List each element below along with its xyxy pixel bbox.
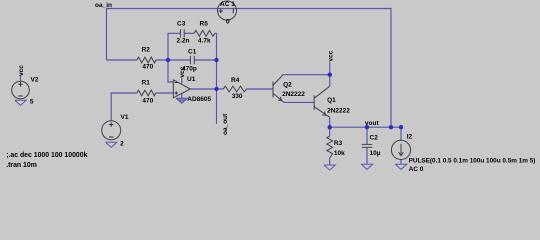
svg-text:2.2n: 2.2n [177,38,190,45]
svg-text:;.ac dec 1000 100 10000k: ;.ac dec 1000 100 10000k [6,152,87,159]
svg-text:I2: I2 [407,134,413,141]
svg-text:470: 470 [142,63,153,70]
svg-text:.tran 10m: .tran 10m [6,162,37,169]
svg-text:vcc: vcc [327,50,334,61]
svg-text:C2: C2 [370,135,379,142]
svg-text:Q1: Q1 [327,97,336,104]
svg-text:C1: C1 [188,48,197,55]
svg-text:2N2222: 2N2222 [282,91,305,98]
svg-text:R3: R3 [334,140,343,147]
svg-text:470: 470 [142,98,153,105]
svg-text:330: 330 [232,93,243,100]
svg-text:V1: V1 [121,114,129,121]
svg-text:AD8605: AD8605 [187,96,211,103]
svg-text:PULSE(0.1 0.5 0.1m 100u 100u 0: PULSE(0.1 0.5 0.1m 100u 100u 0.5m 1m 5) [409,157,536,164]
svg-text:oa_in: oa_in [95,2,112,9]
svg-text:V2: V2 [31,77,39,84]
svg-text:R4: R4 [231,77,240,84]
svg-text:10k: 10k [334,150,345,157]
svg-text:vcc: vcc [179,66,186,77]
svg-text:U1: U1 [187,76,196,83]
svg-text:vout: vout [365,120,380,127]
svg-text:2N2222: 2N2222 [327,108,350,115]
svg-text:Q2: Q2 [283,81,292,88]
svg-text:vcc: vcc [18,65,25,76]
svg-text:AC 0: AC 0 [409,166,424,173]
svg-text:R2: R2 [142,46,151,53]
svg-text:oa_out: oa_out [222,113,229,135]
svg-text:AC 1: AC 1 [220,1,235,8]
svg-text:10µ: 10µ [370,150,381,157]
svg-text:R5: R5 [200,21,209,28]
svg-text:C3: C3 [177,21,186,28]
svg-text:2: 2 [120,141,124,148]
svg-text:5: 5 [30,99,34,106]
svg-text:R1: R1 [142,80,151,87]
svg-text:4.7k: 4.7k [198,38,211,45]
svg-text:0: 0 [226,19,230,26]
